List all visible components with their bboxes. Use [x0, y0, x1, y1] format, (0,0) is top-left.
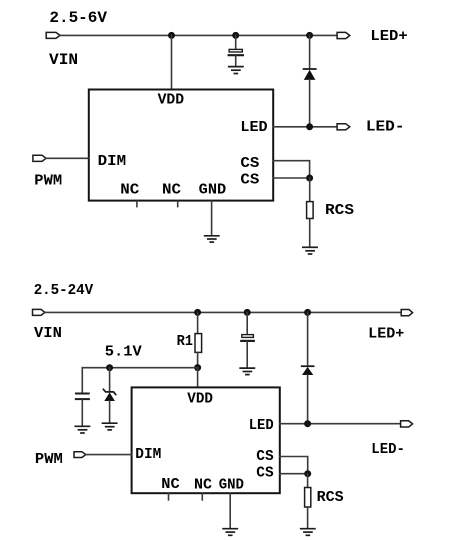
svg-text:CS: CS [256, 449, 274, 465]
node R1 junction (rail) [194, 309, 201, 316]
terminal LED+ (bottom circuit) [401, 310, 412, 316]
wire VIN rail (top) [60, 34, 337, 36]
wire GND pin (U1) [211, 201, 213, 235]
ground (under C3) [75, 426, 89, 433]
svg-text:PWM: PWM [34, 172, 62, 190]
svg-text:DIM: DIM [135, 447, 161, 463]
capacitor C4 (polarized, bottom) [241, 312, 254, 367]
svg-text:RCS: RCS [317, 490, 344, 506]
wire VIN rail (bottom) [45, 311, 401, 313]
ground (under RCS bottom) [301, 529, 315, 536]
ground (under U1 GND) [205, 236, 219, 242]
resistor RCS (bottom) [305, 474, 311, 529]
svg-text:GND: GND [219, 478, 245, 494]
svg-text:VIN: VIN [49, 51, 78, 69]
pin stub NC2 (U2 bottom) [201, 494, 203, 500]
pin stub NC1 (U2 bottom) [168, 494, 170, 500]
svg-text:VDD: VDD [187, 391, 213, 407]
svg-text:NC: NC [194, 478, 212, 494]
node LED junction (bottom) [304, 420, 311, 427]
svg-text:NC: NC [120, 183, 139, 199]
pin stub NC2 (U1 bottom) [177, 201, 179, 206]
svg-text:LED+: LED+ [368, 327, 404, 343]
ground (under U2 GND) [223, 529, 237, 536]
wire GND pin (U2) [229, 494, 231, 529]
svg-text:LED-: LED- [366, 117, 405, 135]
svg-text:2.5-24V: 2.5-24V [34, 283, 94, 299]
svg-text:RCS: RCS [325, 201, 354, 219]
svg-text:2.5-6V: 2.5-6V [49, 9, 107, 27]
node LED junction (top) [306, 123, 313, 130]
node D1 junction (top rail) [306, 32, 313, 39]
wire VDD drop (bottom) [197, 368, 199, 388]
terminal LED+ (top circuit) [337, 32, 350, 38]
wire DIM (bottom) [86, 454, 132, 456]
node VDD junction (top) [168, 32, 175, 39]
ground (under RCS top) [303, 247, 317, 254]
wire VDD drop (top) [171, 35, 173, 89]
svg-text:DIM: DIM [98, 154, 127, 170]
diode D1 (freewheel, top) [304, 35, 316, 126]
svg-text:GND: GND [199, 183, 227, 199]
svg-text:5.1V: 5.1V [105, 345, 142, 361]
IC U1 box (top) [89, 90, 273, 201]
pin stub NC1 (U1 bottom) [136, 201, 138, 206]
node C1 junction [232, 32, 239, 39]
ground (under C1) [229, 67, 243, 74]
svg-text:LED+: LED+ [370, 27, 407, 45]
svg-text:LED: LED [240, 120, 267, 136]
wire LED to LED- (bottom) [280, 423, 401, 425]
node D3 junction (rail) [304, 309, 311, 316]
zener diode D2 (5.1V) [103, 368, 115, 423]
node zener junction [106, 364, 113, 371]
diode D3 (freewheel, bottom) [302, 312, 314, 423]
terminal LED- (top circuit) [337, 124, 350, 130]
node C4 junction (rail) [244, 309, 251, 316]
terminal LED- (bottom circuit) [401, 421, 413, 427]
capacitor C1 (polarized, top) [229, 35, 243, 66]
svg-text:NC: NC [162, 183, 181, 199]
node CS junction (top) [306, 175, 313, 182]
ground (under zener) [103, 423, 117, 430]
svg-text:LED-: LED- [371, 442, 405, 458]
svg-text:NC: NC [161, 477, 180, 493]
svg-text:VIN: VIN [34, 326, 62, 342]
svg-text:LED: LED [249, 418, 274, 434]
wire DIM (top) [46, 157, 88, 159]
svg-text:PWM: PWM [35, 452, 63, 468]
wire CS upper (bottom) [280, 457, 308, 474]
wire CS lower (top) [273, 177, 309, 179]
svg-text:CS: CS [240, 156, 259, 172]
terminal VIN (top circuit) [46, 32, 60, 38]
IC U2 box (bottom) [132, 387, 280, 493]
wire CS lower (bottom) [280, 473, 308, 475]
terminal PWM (top circuit) [33, 155, 46, 161]
wire CS upper (top) [273, 161, 309, 178]
node 5.1V junction (under R1) [194, 364, 201, 371]
svg-text:CS: CS [256, 466, 274, 482]
svg-text:R1: R1 [177, 334, 194, 350]
terminal PWM (bottom circuit) [74, 452, 86, 458]
resistor RCS (top) [307, 178, 314, 247]
wire LED to LED- (top) [273, 126, 337, 128]
svg-text:VDD: VDD [158, 93, 185, 109]
resistor R1 [195, 312, 202, 367]
capacitor C3 (bottom left) [76, 368, 89, 426]
node CS junction (bottom) [304, 470, 311, 477]
svg-text:CS: CS [240, 172, 259, 188]
ground (under C4) [240, 368, 254, 375]
wire 5.1V rail [82, 367, 197, 369]
terminal VIN (bottom circuit) [33, 309, 45, 315]
